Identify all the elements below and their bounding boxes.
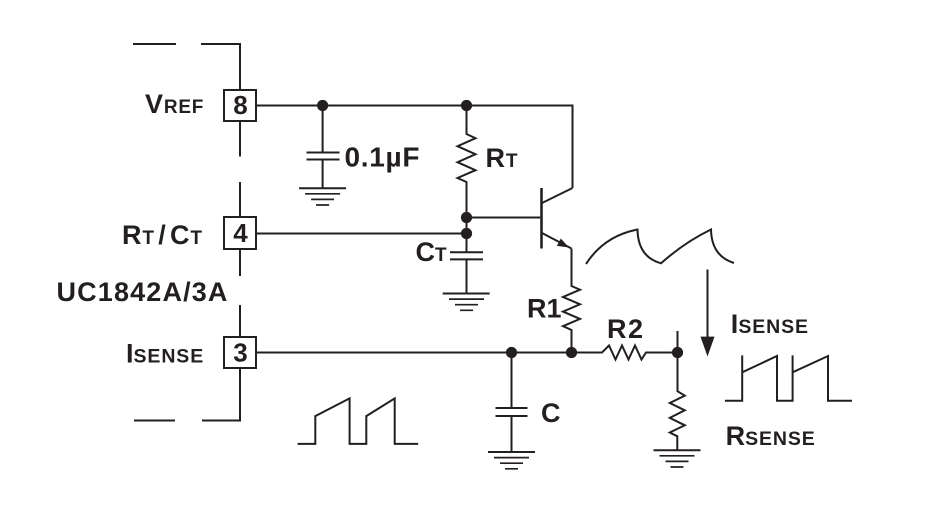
svg-text:0.1µF: 0.1µF	[345, 142, 421, 173]
svg-text:4: 4	[233, 218, 248, 248]
svg-text:R2: R2	[607, 314, 645, 344]
svg-text:RSENSE: RSENSE	[726, 421, 816, 451]
svg-text:VREF: VREF	[145, 89, 204, 119]
svg-text:8: 8	[233, 90, 247, 120]
svg-text:3: 3	[233, 338, 247, 368]
svg-text:RT/CT: RT/CT	[122, 220, 203, 250]
svg-text:ISENSE: ISENSE	[126, 339, 204, 369]
svg-text:ISENSE: ISENSE	[731, 309, 809, 339]
svg-text:R1: R1	[527, 294, 562, 324]
svg-text:CT: CT	[416, 237, 448, 267]
svg-text:RT: RT	[486, 143, 519, 173]
svg-text:UC1842A/3A: UC1842A/3A	[57, 277, 229, 307]
svg-text:C: C	[541, 398, 561, 428]
